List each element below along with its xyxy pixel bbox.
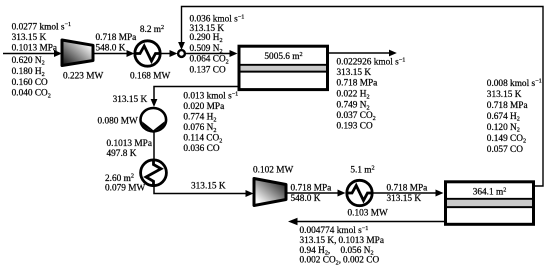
wire feed line into compressor K1: [3, 50, 62, 57]
svg-text:364.1 m2: 364.1 m2: [473, 186, 507, 197]
svg-text:0.103 MW: 0.103 MW: [348, 209, 389, 219]
svg-text:0.120 N2: 0.120 N2: [487, 123, 520, 134]
svg-text:0.168 MW: 0.168 MW: [130, 71, 171, 81]
svg-text:0.022 H2: 0.022 H2: [337, 90, 370, 101]
membrane module M2: [446, 182, 534, 225]
svg-text:0.036 kmol s−1: 0.036 kmol s−1: [190, 13, 245, 24]
svg-text:0.020 MPa: 0.020 MPa: [183, 102, 224, 112]
recycle return line from top into mixer: [178, 7, 543, 187]
svg-text:497.8 K: 497.8 K: [107, 149, 137, 159]
svg-text:313.15 K: 313.15 K: [337, 68, 372, 78]
svg-text:0.718 MPa: 0.718 MPa: [291, 184, 332, 194]
svg-text:0.036 CO: 0.036 CO: [183, 144, 219, 154]
svg-text:313.15 K: 313.15 K: [191, 182, 226, 192]
compressor K2: [254, 179, 286, 206]
svg-text:0.193 CO: 0.193 CO: [337, 122, 373, 132]
permeate product arrow from M2 (to the left): [288, 218, 444, 226]
svg-text:0.718 MPa: 0.718 MPa: [387, 184, 428, 194]
svg-text:548.0 K: 548.0 K: [96, 44, 126, 54]
wire mixer to membrane M1: [186, 50, 238, 57]
heat exchanger HX3: [347, 180, 372, 205]
svg-text:0.040 CO2: 0.040 CO2: [12, 89, 51, 100]
svg-text:0.160 CO: 0.160 CO: [12, 78, 48, 88]
svg-text:0.114 CO2: 0.114 CO2: [183, 134, 222, 145]
stream label 0.718 MPa / 548.0 K: [291, 184, 332, 205]
wire HX2 to compressor K2: [154, 186, 254, 197]
heat exchanger HX1: [135, 41, 160, 66]
wire K2 to HX3: [286, 190, 346, 197]
stream label 0.718 MPa / 313.15 K: [387, 184, 428, 205]
wire pump P1 to HX2: [153, 131, 155, 159]
svg-text:313.15 K: 313.15 K: [12, 33, 47, 43]
svg-text:0.1013 MPa: 0.1013 MPa: [339, 236, 384, 246]
mixer junction node: [178, 50, 185, 57]
svg-text:2.60 m2: 2.60 m2: [105, 173, 134, 184]
compressor K1: [62, 40, 93, 66]
svg-text:0.008 kmol s−1: 0.008 kmol s−1: [487, 78, 542, 89]
wire HX3 to membrane M2: [372, 190, 444, 197]
svg-text:313.15 K: 313.15 K: [113, 95, 150, 105]
svg-text:0.718 MPa: 0.718 MPa: [96, 33, 137, 43]
wire HX1 to mixer node: [162, 50, 178, 57]
svg-text:0.057 CO: 0.057 CO: [487, 145, 523, 155]
vacuum pump P1: [141, 108, 167, 131]
stream label 0.1013 MPa / 497.8 K: [107, 139, 152, 159]
svg-text:313.15 K,: 313.15 K,: [300, 236, 337, 246]
svg-text:0.064 CO2: 0.064 CO2: [190, 55, 229, 66]
svg-text:0.013 kmol s−1: 0.013 kmol s−1: [183, 90, 238, 101]
retentate stream label block: [337, 56, 406, 131]
svg-text:313.15 K: 313.15 K: [487, 90, 522, 100]
wire K1 to HX1: [93, 50, 135, 57]
svg-text:0.774 H2: 0.774 H2: [183, 113, 216, 124]
svg-text:313.15 K: 313.15 K: [387, 194, 422, 204]
svg-text:0.718 MPa: 0.718 MPa: [487, 101, 528, 111]
stream label 0.718 MPa / 548.0 K: [96, 33, 137, 54]
svg-text:0.079 MW: 0.079 MW: [105, 184, 146, 194]
svg-text:0.1013 MPa: 0.1013 MPa: [107, 139, 152, 149]
svg-text:0.037 CO2: 0.037 CO2: [337, 111, 376, 122]
svg-text:0.137 CO: 0.137 CO: [190, 65, 226, 75]
heat exchanger HX2: [141, 160, 167, 186]
product stream label block: [300, 225, 384, 267]
svg-text:0.002 CO2,: 0.002 CO2,: [300, 256, 342, 267]
svg-text:0.749 N2: 0.749 N2: [337, 101, 370, 112]
mixed stream label block: [190, 13, 245, 75]
svg-text:0.102 MW: 0.102 MW: [253, 166, 294, 176]
svg-text:0.620 N2: 0.620 N2: [12, 56, 45, 67]
svg-text:5.1 m2: 5.1 m2: [350, 164, 374, 175]
feed stream label block: [12, 21, 72, 99]
svg-text:0.180 H2: 0.180 H2: [12, 67, 45, 78]
retentate product arrow from M1: [329, 50, 397, 57]
svg-text:5005.6 m2: 5005.6 m2: [264, 51, 302, 62]
permeate stream label block: [183, 90, 238, 154]
svg-text:0.022926 kmol s−1: 0.022926 kmol s−1: [337, 56, 406, 67]
svg-text:0.076 N2: 0.076 N2: [183, 123, 216, 134]
svg-text:0.290 H2: 0.290 H2: [190, 33, 223, 44]
svg-text:0.149 CO2: 0.149 CO2: [487, 134, 526, 145]
svg-text:0.674 H2: 0.674 H2: [487, 112, 520, 123]
svg-text:0.004774 kmol s−1: 0.004774 kmol s−1: [300, 225, 369, 236]
svg-text:0.223 MW: 0.223 MW: [63, 72, 104, 82]
svg-text:0.002 CO: 0.002 CO: [343, 256, 379, 266]
svg-text:548.0 K: 548.0 K: [291, 194, 321, 204]
svg-text:8.2 m2: 8.2 m2: [140, 24, 164, 35]
svg-text:0.0277 kmol s−1: 0.0277 kmol s−1: [12, 21, 72, 32]
svg-text:0.718 MPa: 0.718 MPa: [337, 79, 378, 89]
svg-text:0.080 MW: 0.080 MW: [98, 117, 139, 127]
membrane module M1: [239, 46, 328, 89]
recycle stream label block (right): [487, 78, 542, 155]
svg-text:0.1013 MPa: 0.1013 MPa: [12, 44, 57, 54]
permeate line from M1 to vacuum pump P1: [151, 87, 238, 108]
